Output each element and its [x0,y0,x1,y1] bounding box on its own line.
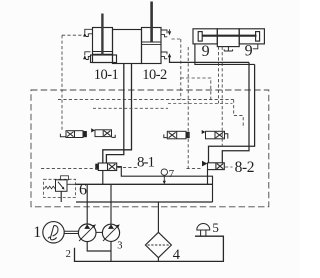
pump 2 circle [78,224,96,242]
cylinder 10-1 piston [93,52,112,55]
pump 3 variable arrow [103,225,119,241]
motor glyph [48,226,58,240]
dashed pilot from unit 9 centre (second) [221,47,223,148]
pressure gauge 7 [161,169,167,175]
svg-text:2: 2 [66,249,71,260]
svg-text:3: 3 [117,241,122,252]
cylinder 10-1 rod [101,14,103,56]
pilot dashed rail C (y=103.4) [168,102,233,104]
pilot valve V2 [91,128,115,137]
central beam block [113,30,142,64]
label leader for right 9 [253,44,258,49]
wire from 10-2 lower port to right drop [170,57,250,63]
relief valve 6 pilot cap [61,176,69,180]
port lower-left of 10-1 [85,52,91,60]
svg-text:10-1: 10-1 [94,67,119,83]
pilot valve V4 [202,130,228,139]
dashed line from 10-1 upper port [62,34,84,36]
svg-text:6: 6 [79,181,87,198]
filter 4 element [148,244,170,246]
right drop wire R2 [209,64,255,162]
frame line under unit 9 [195,44,255,65]
dashed pilot from unit 9 centre [218,47,220,104]
brake unit 9 right housing [239,29,264,44]
filter 4 drop line [157,202,159,232]
port upper-left of 10-1 [85,29,93,36]
dashed pilot drop at x=187 [187,47,189,168]
valve 8-1 drain stub [102,171,104,185]
dashed drop to valve V1 [61,35,63,131]
pump 3 outlet arrow [108,224,114,229]
cylinder 10-1 flange [91,55,117,63]
coupling shaft [64,231,78,233]
pump feed line from pump 3 [110,184,112,224]
relief valve 6 drain stub [60,191,62,202]
relief valve 6 dashed sub-box [44,179,76,197]
pump feed line from pump 2 [86,184,88,224]
pump 3 circle [102,224,119,241]
brake unit 9 left housing [193,29,217,44]
breather 5 [197,224,210,230]
relief valve 6 body [56,180,68,192]
filter 4 diamond [145,232,171,257]
suction manifold [87,241,111,261]
filter 4 outlet [157,258,159,262]
cylinder 10-2 rod [150,2,153,43]
tank line [75,236,224,261]
cylinder 10-2 piston [142,42,161,45]
cylinder 10-1 body [93,28,113,63]
brake unit 9 right piston [256,32,260,41]
brake unit 9 left piston [198,32,202,41]
pilot valve V3 [164,131,189,139]
rail hookup of valve 6 [67,183,76,185]
dashed line from 10-2 upper port [172,39,211,100]
svg-text:10-2: 10-2 [142,67,167,83]
dashed enclosure box (manifold boundary) [31,90,269,207]
pilot valve V1 [60,131,86,138]
pilot dashed rail B (y=108.3) [93,107,168,109]
svg-text:5: 5 [212,220,219,235]
pressure rail [76,183,213,185]
port lower-right of 10-2 [161,52,167,59]
valve 8-2 drain stub [207,170,209,185]
brake unit 9 centre block [217,29,239,47]
pilot dashed rail A (y=99) [58,99,234,101]
pump 2 variable arrow [79,225,96,241]
svg-text:1: 1 [33,224,41,241]
valve 8-1 right-port wire [117,167,213,202]
pump 2 outlet arrow [84,224,90,229]
inter-pump shaft [96,231,103,233]
svg-text:9: 9 [245,43,253,60]
svg-text:8-1: 8-1 [137,155,154,171]
manifold bottom line [76,201,213,203]
pipe from central block to valve 8-1 (wire W2) [106,64,123,164]
valve 8-1 [96,163,117,171]
svg-text:7: 7 [169,168,175,180]
brake rod through unit 9 [202,35,256,37]
svg-text:9: 9 [202,43,210,60]
svg-text:8-2: 8-2 [235,159,254,176]
dashed rail through valves 8-1/8-2 [41,167,233,169]
right drop wire R1 [222,62,249,162]
electric motor 1 [43,222,64,243]
valve 8-2 [202,161,224,170]
anchor symbol under centre block [224,47,232,51]
relief valve 6 spring [45,186,56,189]
dashed staircase to valve V4 [234,100,244,128]
pipe from central block to valve 8-1 (wire W1) [103,64,132,164]
cylinder 10-2 body [142,28,162,64]
svg-text:4: 4 [173,247,181,263]
port upper-right of 10-2 [161,30,167,37]
